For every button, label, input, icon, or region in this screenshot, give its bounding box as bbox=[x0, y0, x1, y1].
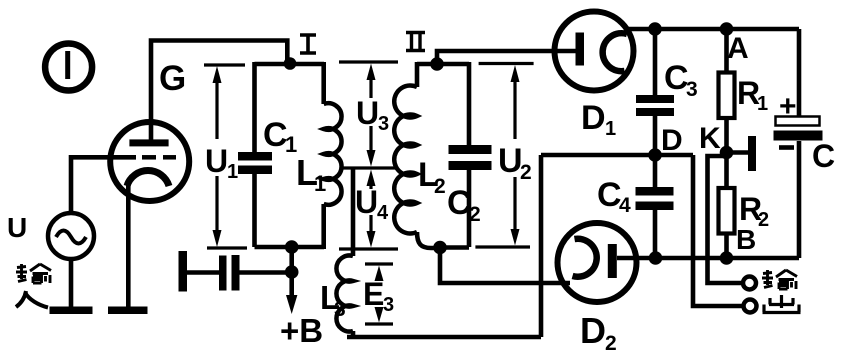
dimension U2 bbox=[475, 64, 533, 248]
svg-text:3: 3 bbox=[686, 78, 698, 101]
node K bbox=[720, 146, 734, 160]
ground (under source) bbox=[50, 307, 93, 315]
capacitor C1 bbox=[238, 62, 272, 247]
node (bypass junction) bbox=[285, 265, 299, 279]
bypass capacitor pair bbox=[179, 251, 293, 292]
wire D2 output rail bbox=[617, 256, 799, 261]
figure number circled 1 bbox=[45, 44, 92, 91]
node I bbox=[284, 57, 297, 70]
diode tube D1 bbox=[555, 12, 634, 91]
svg-text:3: 3 bbox=[334, 298, 346, 321]
capacitor C4 bbox=[636, 155, 674, 258]
dimension E3 bbox=[365, 264, 393, 324]
node A bbox=[720, 22, 734, 36]
hanzi shu (output) bbox=[762, 270, 797, 289]
resistor R2 bbox=[719, 153, 735, 259]
svg-text:2: 2 bbox=[520, 161, 532, 184]
wire D1 output rail bbox=[627, 27, 799, 32]
node D bbox=[648, 148, 662, 162]
triode tube G bbox=[110, 122, 189, 201]
label node II bbox=[406, 33, 425, 51]
svg-text:1: 1 bbox=[605, 118, 616, 140]
node B junction bbox=[720, 251, 734, 265]
electrolytic capacitor C bbox=[774, 117, 823, 148]
+B supply arrow bbox=[286, 272, 297, 314]
dimension U1 bbox=[204, 65, 247, 248]
svg-text:D: D bbox=[661, 124, 683, 157]
wire D right branch to output bbox=[693, 155, 745, 306]
svg-text:B: B bbox=[736, 224, 756, 255]
svg-text:C: C bbox=[597, 176, 622, 214]
capacitor C3 bbox=[636, 29, 674, 154]
inductor L1 bbox=[324, 62, 342, 249]
svg-text:C: C bbox=[263, 116, 288, 154]
wire K jog to output bbox=[708, 156, 744, 283]
hanzi ru (input) bbox=[16, 291, 48, 308]
diode tube D2 bbox=[558, 223, 637, 302]
inductor L3 bbox=[336, 168, 541, 337]
wire anode to top rail bbox=[151, 41, 287, 141]
svg-text:C: C bbox=[447, 184, 472, 222]
output terminal 2 bbox=[744, 300, 757, 313]
svg-text:D: D bbox=[581, 99, 606, 137]
wire junction drop bbox=[289, 247, 294, 272]
capacitor C2 bbox=[449, 62, 492, 247]
svg-text:E: E bbox=[363, 276, 384, 312]
node (tank I bottom junction) bbox=[285, 240, 299, 254]
terminal bar at K bbox=[727, 136, 757, 171]
wire tank I bottom rail bbox=[255, 245, 325, 250]
wire node II jog to D1 plate bbox=[437, 51, 577, 66]
svg-text:2: 2 bbox=[758, 209, 769, 231]
AC source U bbox=[48, 213, 94, 259]
svg-text:U: U bbox=[498, 142, 523, 180]
resistor R1 bbox=[719, 29, 735, 152]
svg-text:C: C bbox=[664, 59, 689, 97]
wire tank I top rail bbox=[255, 62, 325, 67]
svg-text:U: U bbox=[356, 95, 379, 131]
svg-text:4: 4 bbox=[619, 194, 631, 217]
hanzi chu (output) bbox=[763, 295, 801, 313]
svg-text:3: 3 bbox=[378, 113, 389, 135]
wire source to ground bbox=[69, 259, 74, 307]
svg-text:U: U bbox=[205, 143, 228, 179]
ground (under cathode) bbox=[108, 307, 148, 315]
svg-text:+B: +B bbox=[280, 312, 323, 349]
svg-text:A: A bbox=[727, 32, 749, 65]
svg-text:G: G bbox=[159, 59, 186, 98]
svg-text:2: 2 bbox=[434, 175, 446, 198]
svg-text:+: + bbox=[779, 90, 797, 123]
node (tank II bottom junction) bbox=[433, 241, 447, 255]
svg-text:1: 1 bbox=[314, 171, 326, 196]
wire grid lead bbox=[71, 157, 136, 214]
svg-text:U: U bbox=[7, 212, 27, 243]
wire right riser top bbox=[797, 29, 802, 116]
hanzi shu (input) bbox=[16, 264, 51, 283]
dimension U3 / U4 bbox=[339, 62, 398, 249]
node (C4 bottom) bbox=[649, 251, 663, 265]
inductor L2 bbox=[394, 62, 440, 248]
wire cathode to ground bbox=[126, 184, 131, 307]
wire D to bottom rail bbox=[539, 155, 544, 337]
svg-text:1: 1 bbox=[227, 161, 238, 183]
svg-text:1: 1 bbox=[757, 93, 768, 115]
svg-text:D: D bbox=[580, 310, 606, 351]
svg-text:4: 4 bbox=[377, 202, 389, 224]
svg-text:C: C bbox=[812, 138, 835, 174]
wire node D horizontal bbox=[541, 153, 693, 158]
wire tank II bottom bbox=[440, 245, 469, 250]
label node I bbox=[300, 35, 316, 53]
svg-text:U: U bbox=[355, 184, 378, 220]
svg-text:K: K bbox=[699, 122, 721, 155]
svg-text:2: 2 bbox=[469, 203, 481, 226]
wire right riser bottom bbox=[797, 141, 802, 258]
wire to D2 cathode bbox=[440, 248, 570, 284]
svg-text:3: 3 bbox=[383, 294, 394, 316]
output terminal 1 bbox=[743, 277, 756, 290]
node II bbox=[430, 57, 444, 71]
svg-text:2: 2 bbox=[605, 332, 617, 355]
wire tank II top rail bbox=[417, 62, 469, 67]
node (C3 top) bbox=[648, 22, 662, 36]
